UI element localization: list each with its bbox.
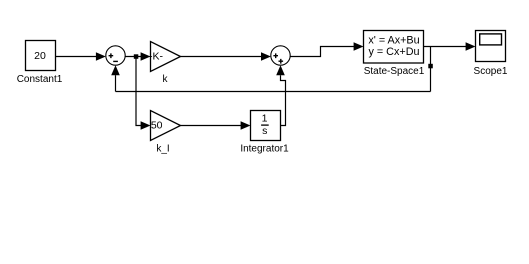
sum junction Sum2: [271, 46, 290, 65]
svg-text:s: s: [262, 125, 267, 137]
svg-text:50: 50: [151, 120, 163, 132]
wire Gain k to Sum2: [181, 52, 271, 61]
wire Integrator1 to Sum2 plus input: [276, 65, 285, 125]
scope block Scope1: [476, 31, 506, 62]
constant block Constant1: [26, 41, 56, 71]
sum junction Sum1: [106, 46, 125, 65]
wire Sum2 to State-Space1: [290, 42, 363, 56]
wire feedback horizontal run: [116, 91, 431, 93]
wire Constant1 to Sum1: [56, 52, 106, 61]
svg-text:-K-: -K-: [149, 50, 164, 62]
wire Gain k_I to Integrator1: [181, 121, 251, 130]
svg-text:k_I: k_I: [156, 144, 169, 155]
gain block k: [149, 42, 181, 72]
wire Sum1 to Gain k: [125, 52, 150, 61]
svg-text:1: 1: [262, 113, 268, 125]
svg-text:20: 20: [34, 50, 46, 62]
wire feedback up into Sum1 minus input: [111, 65, 120, 91]
junction node dot at Sum1 output: [134, 54, 139, 59]
svg-text:State-Space1: State-Space1: [364, 66, 425, 77]
junction node dot on feedback branch: [428, 64, 433, 69]
integrator block Integrator1: [251, 111, 281, 141]
svg-text:y = Cx+Du: y = Cx+Du: [368, 46, 419, 58]
wire feedback branch down from State-Space1 output: [430, 47, 432, 92]
svg-text:Constant1: Constant1: [17, 74, 63, 85]
wire State-Space1 to Scope1: [424, 42, 476, 51]
svg-text:x' = Ax+Bu: x' = Ax+Bu: [368, 34, 419, 46]
wire branch junction down to Gain k_I: [136, 57, 151, 130]
svg-text:Integrator1: Integrator1: [240, 144, 289, 155]
svg-text:Scope1: Scope1: [474, 66, 508, 77]
state-space block State-Space1: [364, 31, 424, 64]
gain block k_I: [151, 111, 181, 141]
